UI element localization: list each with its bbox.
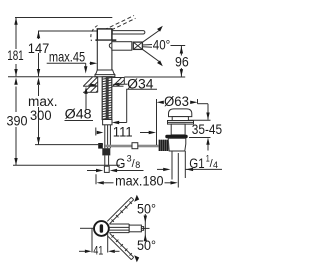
svg-text:4: 4	[213, 160, 218, 170]
svg-text:Ø48: Ø48	[65, 107, 92, 122]
svg-text:181: 181	[7, 48, 24, 63]
svg-text:300: 300	[30, 108, 52, 123]
svg-text:390: 390	[7, 114, 28, 129]
svg-text:147: 147	[28, 41, 50, 56]
svg-text:50°: 50°	[137, 238, 156, 253]
svg-text:35-45: 35-45	[192, 122, 222, 137]
svg-text:8: 8	[135, 160, 140, 170]
svg-text:max.45: max.45	[49, 49, 85, 64]
svg-text:G: G	[116, 156, 126, 171]
svg-text:50°: 50°	[137, 202, 156, 217]
svg-text:max.: max.	[28, 94, 58, 109]
svg-text:max.180: max.180	[115, 173, 163, 188]
svg-text:Ø63: Ø63	[164, 94, 189, 109]
svg-text:111: 111	[113, 124, 133, 139]
svg-text:40°: 40°	[153, 37, 171, 52]
svg-text:96: 96	[175, 54, 189, 69]
svg-text:41: 41	[93, 246, 103, 258]
